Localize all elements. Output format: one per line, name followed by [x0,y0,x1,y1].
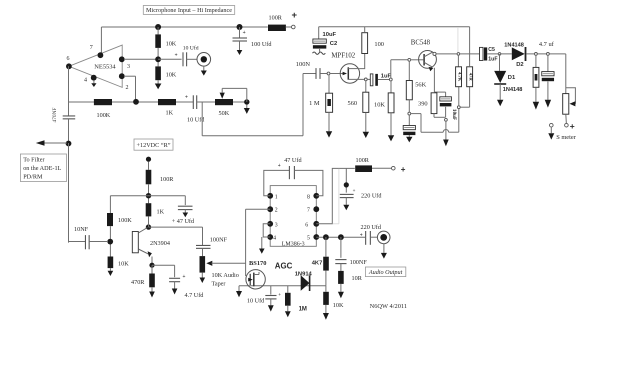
svg-text:10R: 10R [352,275,363,282]
svg-text:4.7K: 4.7K [458,72,463,82]
svg-text:+: + [183,274,186,280]
svg-text:560: 560 [348,100,358,107]
svg-text:+ 47 Ufd: + 47 Ufd [172,218,195,225]
svg-text:220 Ufd: 220 Ufd [361,224,382,231]
svg-text:4.7 uf: 4.7 uf [539,41,555,48]
svg-text:10NF: 10NF [74,226,89,233]
svg-text:6: 6 [67,56,70,62]
svg-text:PD/RM: PD/RM [23,174,43,181]
svg-text:10K Audio: 10K Audio [212,272,239,279]
svg-text:7: 7 [307,208,310,214]
svg-text:100 Ufd: 100 Ufd [251,41,272,48]
svg-text:10K: 10K [166,41,177,48]
svg-text:470R: 470R [131,279,145,286]
svg-text:4.7 Ufd: 4.7 Ufd [185,292,205,299]
svg-text:N6QW 4/2011: N6QW 4/2011 [370,303,407,310]
svg-text:47R: 47R [469,73,474,82]
svg-text:on the ADE-1L: on the ADE-1L [23,165,61,172]
svg-text:1: 1 [275,194,278,200]
svg-text:+: + [243,30,246,36]
svg-text:+: + [185,94,188,100]
svg-text:+: + [401,165,406,174]
svg-text:C5: C5 [488,47,495,53]
svg-text:10uF: 10uF [323,32,337,38]
svg-text:Taper: Taper [212,281,226,288]
svg-text:S meter: S meter [556,134,577,141]
svg-text:390: 390 [418,101,428,108]
svg-text:10uF: 10uF [451,109,457,120]
svg-text:47 Ufd: 47 Ufd [284,157,302,164]
svg-text:10K: 10K [166,72,177,79]
svg-text:BS170: BS170 [249,260,266,267]
svg-text:100N: 100N [296,61,311,68]
svg-text:10 Ufd: 10 Ufd [247,298,265,305]
svg-text:6: 6 [305,222,308,228]
svg-text:100NF: 100NF [210,236,228,243]
svg-text:+: + [353,189,356,194]
svg-text:To Filter: To Filter [23,157,44,164]
svg-text:4: 4 [273,236,276,242]
svg-text:100NF: 100NF [350,259,368,266]
svg-text:+: + [570,121,575,131]
svg-text:2: 2 [126,85,129,91]
svg-text:+: + [278,293,281,298]
svg-text:BC548: BC548 [411,39,431,46]
svg-text:+: + [278,163,281,169]
svg-text:NE5534: NE5534 [94,63,116,70]
svg-text:10 Ufd: 10 Ufd [183,44,199,51]
svg-text:10K: 10K [333,302,344,309]
svg-text:4: 4 [84,78,87,84]
svg-text:2: 2 [275,208,278,214]
svg-text:100R: 100R [269,15,283,22]
svg-text:100: 100 [374,41,384,48]
svg-text:+: + [175,53,178,59]
svg-text:470NF: 470NF [52,108,58,123]
svg-text:Microphone Input – Hi Impedanc: Microphone Input – Hi Impedance [146,7,232,14]
svg-text:C2: C2 [330,41,337,47]
svg-text:5: 5 [307,236,310,242]
svg-text:D1: D1 [508,75,516,81]
svg-text:10K: 10K [374,102,385,109]
svg-text:10K: 10K [118,261,129,268]
svg-text:1uF: 1uF [488,57,497,63]
svg-text:3: 3 [275,222,278,228]
svg-text:+: + [292,10,298,21]
svg-text:1 M: 1 M [309,100,320,107]
svg-text:MPF102: MPF102 [331,52,355,59]
svg-text:220 Ufd: 220 Ufd [361,193,382,200]
svg-text:AGC: AGC [275,262,293,271]
svg-text:+: + [360,232,363,238]
svg-text:1N4148: 1N4148 [503,87,523,93]
svg-text:2N3904: 2N3904 [150,240,170,247]
svg-text:8: 8 [307,194,310,200]
svg-text:1M: 1M [299,307,307,313]
svg-text:1K: 1K [166,110,174,117]
svg-text:56K: 56K [415,81,426,88]
svg-text:7: 7 [90,45,93,51]
svg-text:3: 3 [127,64,130,70]
svg-text:100K: 100K [118,217,132,224]
svg-text:100R: 100R [356,157,370,164]
svg-text:LM386-3: LM386-3 [282,242,305,248]
svg-text:D2: D2 [516,62,523,68]
svg-text:Audio Output: Audio Output [368,269,403,276]
svg-text:100K: 100K [97,112,111,119]
svg-text:1N4148: 1N4148 [504,43,524,49]
svg-text:+12VDC “R”: +12VDC “R” [137,142,171,149]
svg-text:4K7: 4K7 [312,260,323,266]
svg-text:1K: 1K [157,209,165,216]
svg-text:50K: 50K [219,110,230,117]
svg-text:100R: 100R [160,176,174,183]
